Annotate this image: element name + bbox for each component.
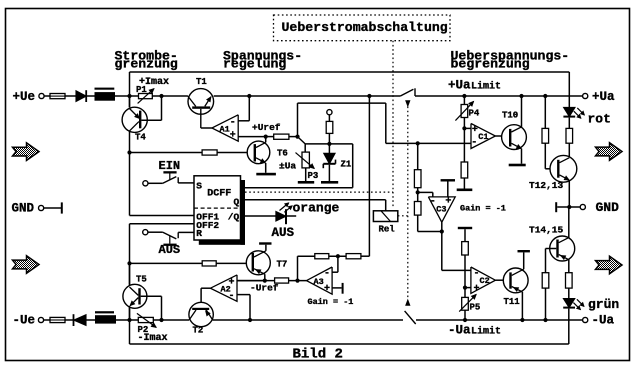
- svg-text:GND: GND: [12, 201, 35, 215]
- svg-text:regelung: regelung: [223, 57, 286, 72]
- svg-text:AUS: AUS: [272, 226, 295, 240]
- svg-text:Gain = -1: Gain = -1: [308, 297, 354, 307]
- svg-text:S: S: [196, 180, 202, 191]
- svg-text:Gain = -1: Gain = -1: [460, 204, 506, 214]
- svg-text:+: +: [472, 125, 478, 136]
- svg-text:+Ue: +Ue: [13, 90, 36, 104]
- svg-text:Q: Q: [233, 197, 239, 208]
- svg-text:Limit: Limit: [471, 80, 501, 92]
- svg-text:+Ua: +Ua: [592, 90, 615, 104]
- svg-text:+Ua: +Ua: [448, 79, 471, 93]
- svg-text:T4: T4: [135, 133, 146, 143]
- svg-text:T7: T7: [277, 259, 288, 269]
- svg-text:T1: T1: [196, 77, 207, 87]
- svg-text:P4: P4: [469, 108, 480, 118]
- svg-text:Rel: Rel: [379, 225, 396, 235]
- svg-text:+: +: [230, 131, 236, 142]
- svg-text:+: +: [324, 284, 330, 295]
- svg-text:Ueberstromabschaltung: Ueberstromabschaltung: [282, 20, 448, 35]
- svg-text:-: -: [430, 196, 436, 207]
- svg-text:orange: orange: [293, 201, 340, 216]
- svg-text:begrenzung: begrenzung: [451, 57, 530, 72]
- svg-text:P1: P1: [136, 85, 147, 95]
- svg-text:A3: A3: [314, 277, 324, 287]
- svg-text:EIN: EIN: [159, 159, 181, 173]
- svg-text:-: -: [230, 117, 236, 128]
- svg-text:C3: C3: [436, 204, 446, 214]
- svg-text:P3: P3: [308, 171, 319, 181]
- svg-text:/Q: /Q: [228, 212, 240, 223]
- svg-text:-Ue: -Ue: [13, 314, 36, 328]
- svg-text:Z1: Z1: [341, 160, 352, 170]
- svg-text:T5: T5: [136, 275, 147, 285]
- svg-text:C1: C1: [478, 132, 488, 142]
- svg-text:AUS: AUS: [159, 243, 181, 257]
- svg-text:GND: GND: [596, 200, 620, 215]
- svg-text:grün: grün: [588, 297, 619, 312]
- svg-text:T6: T6: [277, 148, 288, 158]
- svg-text:T10: T10: [502, 110, 518, 120]
- svg-text:+Uref: +Uref: [252, 122, 281, 133]
- svg-text:-: -: [471, 138, 477, 149]
- svg-text:Bild 2: Bild 2: [293, 347, 343, 363]
- svg-text:±Ua: ±Ua: [279, 160, 296, 171]
- svg-text:A2: A2: [221, 285, 231, 295]
- svg-text:-Uref: -Uref: [250, 282, 279, 293]
- svg-text:DCFF: DCFF: [207, 189, 231, 200]
- svg-text:Limit: Limit: [471, 325, 501, 337]
- svg-text:grenzung: grenzung: [115, 57, 178, 72]
- svg-text:rot: rot: [588, 111, 611, 126]
- svg-text:A1: A1: [220, 124, 230, 134]
- svg-text:T12,13: T12,13: [529, 180, 564, 191]
- svg-text:T14,15: T14,15: [529, 224, 564, 235]
- svg-text:P5: P5: [470, 303, 481, 313]
- svg-text:-Ua: -Ua: [592, 314, 615, 328]
- svg-text:C2: C2: [480, 276, 490, 286]
- svg-text:T2: T2: [193, 326, 204, 336]
- svg-text:T11: T11: [504, 297, 521, 307]
- svg-text:-Ua: -Ua: [448, 324, 471, 338]
- svg-text:-Imax: -Imax: [138, 333, 168, 344]
- svg-text:-: -: [324, 269, 330, 280]
- svg-text:R: R: [196, 228, 202, 239]
